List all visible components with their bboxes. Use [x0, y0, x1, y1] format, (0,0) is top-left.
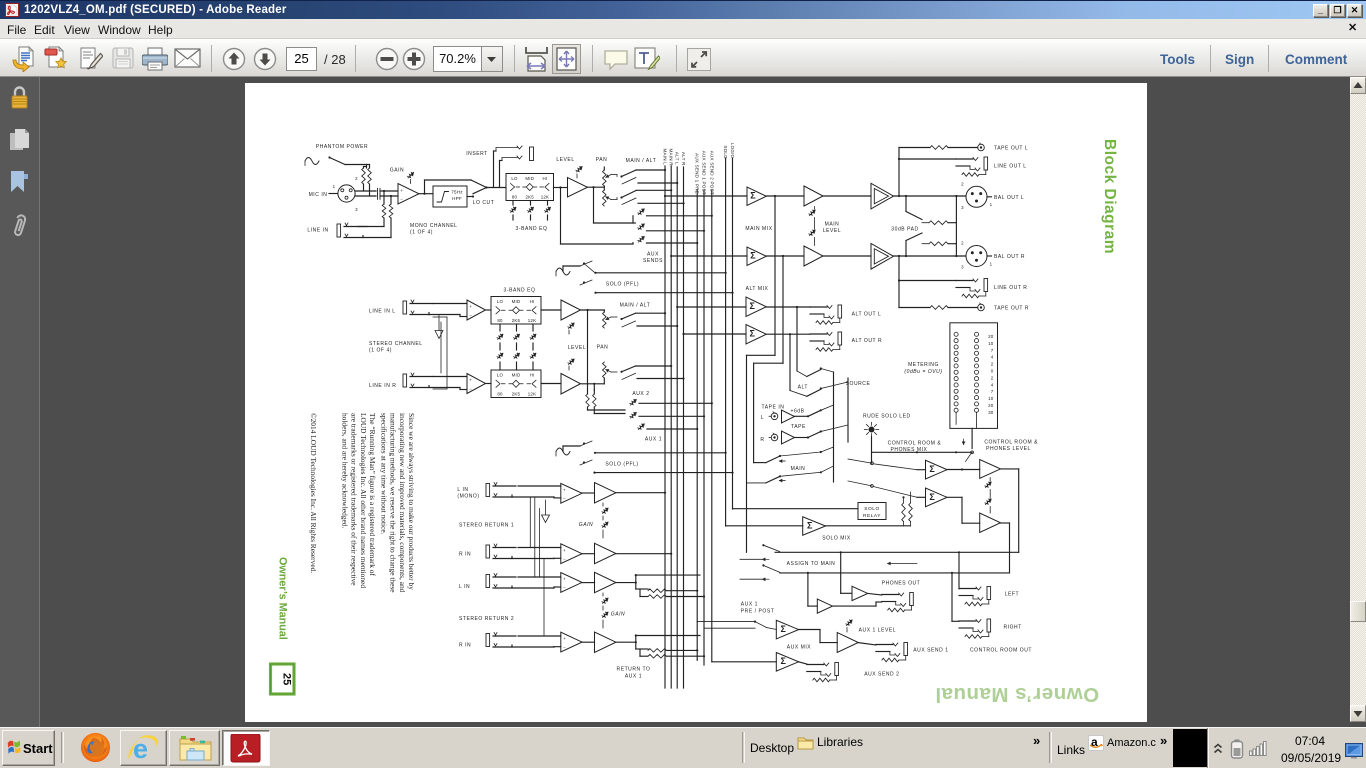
XLR BAL OUT R [966, 246, 987, 267]
pad switch R [905, 255, 907, 257]
aux1 master select switch [696, 659, 698, 661]
svg-text:HI: HI [530, 299, 535, 304]
svg-text:Owner’s Manual: Owner’s Manual [935, 683, 1099, 706]
svg-text:−: − [563, 645, 566, 650]
insert jack sleeve [530, 147, 534, 161]
meter LED column right [974, 332, 978, 336]
svg-text:GAIN: GAIN [390, 168, 404, 174]
EQ HI pot [547, 201, 549, 206]
svg-text:−: − [563, 556, 566, 561]
source select switch MAIN L [754, 462, 766, 464]
XLR BAL OUT L [966, 186, 987, 207]
jack AUX SEND 2 [807, 664, 824, 666]
main mix downfeed corner R [754, 362, 783, 364]
jack LINE OUT L [956, 158, 973, 160]
source arrow main R [779, 480, 785, 482]
node tape/line split R [898, 255, 900, 257]
return1 gain pot [602, 503, 604, 506]
tape in amp R [782, 431, 795, 444]
solo source symbol (mono) [556, 268, 570, 275]
aux1 level pot [846, 620, 851, 625]
main level pot R [809, 230, 814, 235]
buffer amp R (stereo) [467, 374, 486, 394]
phones amp R [817, 599, 832, 613]
wire to AUX SEND 1 PRE (stereo) [647, 428, 697, 430]
tape in amp L [782, 410, 795, 423]
jack AUX SEND 1 [876, 644, 893, 646]
CR power amp L [980, 460, 1001, 479]
output driver L [871, 183, 894, 209]
tape out R resistor [899, 307, 930, 309]
CR pot rail [989, 478, 991, 482]
assign arrows [762, 558, 769, 560]
svg-text:2: 2 [961, 241, 964, 246]
aux2 pot (mono) [638, 236, 643, 241]
svg-text:Σ: Σ [750, 301, 756, 311]
line-in resistor R4 [363, 237, 391, 239]
jack CONTROL ROOM OUT LEFT [959, 588, 976, 590]
svg-text:LO CUT: LO CUT [473, 200, 495, 206]
pan pot network L (stereo) [603, 310, 605, 312]
svg-text:4: 4 [991, 355, 994, 360]
svg-text:2K5: 2K5 [512, 318, 521, 323]
wire sum L to main level [766, 195, 804, 197]
pad link wire [955, 195, 957, 197]
svg-text:specifications at any time wit: specifications at any time without notic… [379, 413, 388, 535]
svg-text:(MONO): (MONO) [457, 494, 479, 500]
node tape/line split L [898, 195, 900, 197]
page number box 25 [271, 664, 295, 694]
switch MAIN/ALT R (stereo) [620, 371, 622, 373]
svg-text:L: L [761, 415, 764, 421]
sum amp CR L [926, 460, 948, 479]
gain amp return1 L [595, 483, 616, 503]
return to aux resistor R7 [636, 648, 648, 650]
wire [433, 376, 467, 378]
LED wire [871, 437, 873, 464]
svg-text:Owner’s Manual: Owner’s Manual [277, 557, 289, 640]
coupling capacitor C2 [377, 194, 379, 199]
wire driver L out [894, 195, 966, 197]
phones amp L [852, 586, 868, 600]
svg-text:2: 2 [961, 182, 964, 187]
svg-text:MID: MID [512, 299, 521, 304]
wire return2 R out [616, 641, 636, 643]
aux1 pre pot (stereo) [638, 424, 643, 429]
metering box [950, 323, 998, 429]
svg-text:METERING: METERING [908, 362, 939, 368]
return to aux resistor R8 [640, 655, 648, 657]
svg-text:RUDE SOLO LED: RUDE SOLO LED [863, 414, 911, 420]
assign to main wire L [775, 551, 1019, 553]
output driver R [871, 244, 894, 270]
svg-text:GAIN: GAIN [579, 522, 593, 528]
switch ALT R throw (mono) [622, 198, 636, 205]
wire to sum CR L [873, 464, 917, 470]
jack STEREO RETURN 1 R [486, 545, 490, 558]
wire level L out [581, 309, 605, 311]
svg-text:SOLO: SOLO [723, 145, 728, 159]
bus AUX SEND 1 POST [703, 190, 705, 665]
source collect rail 1 [833, 372, 835, 482]
svg-text:−: − [563, 585, 566, 590]
svg-text:+6dB: +6dB [790, 409, 804, 415]
sum amp CR R [926, 488, 948, 507]
rail resistor L [586, 394, 589, 407]
wire aux to AUX SEND 1 POST [647, 230, 705, 232]
rail resistor R [593, 394, 596, 407]
wire sum CR L to amp [947, 469, 980, 471]
jack CONTROL ROOM OUT RIGHT [959, 620, 976, 622]
svg-text:manufacturing methods, we rese: manufacturing methods, we reserve the ri… [389, 413, 398, 593]
svg-text:Σ: Σ [780, 656, 786, 666]
svg-text:SENDS: SENDS [643, 258, 663, 264]
svg-text:SOLO: SOLO [864, 506, 880, 512]
aux2 pot (stereo) [630, 399, 635, 404]
svg-text:L IN: L IN [457, 487, 468, 493]
source select switch MAIN R [747, 482, 766, 484]
jack STEREO RETURN 2 R [486, 634, 490, 647]
source arrow main L [779, 460, 785, 462]
CR mix select pivot L [871, 462, 874, 465]
solo logic switch (stereo) [580, 460, 592, 465]
CR level switch [971, 428, 973, 448]
svg-text:+: + [563, 548, 566, 553]
jack STEREO RETURN 2 L [486, 575, 490, 588]
phones wires to jack [868, 593, 882, 595]
svg-text:+: + [563, 487, 566, 492]
CR mix select pivot R [871, 485, 874, 488]
svg-text:e: e [133, 734, 148, 764]
svg-text:MIC IN: MIC IN [309, 192, 328, 198]
wire alt L out [766, 306, 810, 308]
svg-text:AUX 2: AUX 2 [632, 391, 649, 397]
svg-text:−: − [469, 313, 472, 318]
sum amp ALT L [746, 297, 766, 317]
pad switch L [905, 195, 907, 197]
source select switch TAPE R [795, 437, 809, 439]
HPF filter block 75Hz [433, 186, 467, 207]
phantom switch S1 [328, 156, 330, 158]
svg-text:AUX SEND 1: AUX SEND 1 [913, 648, 948, 654]
svg-text:20: 20 [988, 334, 994, 339]
gain amp return2 R [595, 632, 616, 652]
svg-text:TAPE: TAPE [791, 424, 806, 430]
svg-text:7: 7 [991, 389, 994, 394]
node main R downfeed [782, 255, 784, 257]
svg-text:AUX SEND 1 PRE: AUX SEND 1 PRE [695, 153, 700, 194]
tape out L resistor [899, 147, 930, 149]
svg-text:SOLO (PFL): SOLO (PFL) [605, 462, 638, 468]
sum amp AUX 1 [776, 620, 798, 639]
svg-text:LINE OUT L: LINE OUT L [994, 164, 1027, 170]
svg-text:25: 25 [281, 673, 293, 685]
svg-text:AUX 1 LEVEL: AUX 1 LEVEL [859, 628, 896, 634]
wire to AUX SEND 2 POST (stereo) [639, 402, 712, 404]
svg-text:©2014 LOUD Technologies Inc. A: ©2014 LOUD Technologies Inc. All Rights … [309, 413, 318, 573]
svg-text:10: 10 [988, 396, 994, 401]
return to aux resistor R6 [640, 596, 648, 598]
svg-text:0: 0 [991, 369, 994, 374]
svg-text:are trademarks or registered t: are trademarks or registered trademarks … [350, 413, 359, 586]
svg-text:20: 20 [988, 403, 994, 408]
RCA jack TAPE IN R [771, 434, 778, 441]
return to aux resistor R5 [636, 588, 648, 590]
phantom resistor R2 [368, 168, 372, 184]
svg-text:holders, and are hereby acknow: holders, and are hereby acknowledged. [340, 413, 349, 528]
svg-text:SOLO MIX: SOLO MIX [822, 536, 851, 542]
aux1 level amp [837, 633, 858, 653]
svg-text:LOGIC: LOGIC [730, 143, 735, 159]
pan wiper R (stereo) [606, 370, 611, 373]
svg-text:MAIN L: MAIN L [663, 148, 668, 165]
wire sum R to main level [766, 255, 804, 257]
svg-text:1: 1 [990, 262, 993, 267]
svg-text:ALT: ALT [798, 385, 808, 391]
svg-text:+: + [469, 304, 472, 309]
return jack normalling wires [529, 497, 531, 548]
svg-text:TAPE OUT R: TAPE OUT R [994, 306, 1029, 312]
svg-text:LO: LO [497, 372, 504, 377]
svg-text:PRE / POST: PRE / POST [741, 609, 775, 615]
coupling capacitor C1 [377, 188, 379, 193]
svg-text:incorporating new and improved: incorporating new and improved materials… [398, 413, 407, 593]
svg-text:CONTROL ROOM &: CONTROL ROOM & [984, 440, 1038, 446]
jack LINE IN (mono) [337, 224, 341, 237]
wire LOGIC to solo relay [733, 508, 859, 510]
switch ALT L throw (stereo) [622, 321, 636, 327]
solo feed resistor 2 [910, 522, 912, 526]
wire level out [588, 186, 605, 188]
solo feed resistor 1 [903, 522, 905, 526]
svg-text:BAL OUT R: BAL OUT R [994, 254, 1025, 260]
svg-text:MID: MID [512, 372, 521, 377]
bus AUX SEND 2 POST [711, 190, 713, 662]
wire to aux send 1 jack [858, 643, 876, 645]
node main L downfeed [774, 195, 776, 197]
bus MAIN L [664, 166, 666, 688]
wire sum CR R to amp [947, 496, 962, 498]
pan wiper R [606, 197, 611, 200]
svg-text:BAL OUT L: BAL OUT L [994, 195, 1024, 201]
op-amp U1 mic preamp [398, 184, 419, 205]
EQ pots (stereo MID) [516, 324, 518, 331]
svg-text:STEREO CHANNEL: STEREO CHANNEL [369, 341, 423, 347]
svg-text:LEVEL: LEVEL [568, 345, 586, 351]
sum amp ALT R [746, 325, 766, 345]
bus SOLO [725, 158, 727, 526]
level amp L (stereo) [561, 300, 581, 320]
buffer amp L (stereo) [467, 300, 486, 320]
jack LINE IN R [403, 374, 407, 387]
svg-text:75Hz: 75Hz [451, 190, 463, 195]
svg-text:ALT OUT R: ALT OUT R [852, 338, 883, 344]
main level pot rail [814, 207, 816, 210]
svg-text:R IN: R IN [459, 643, 471, 649]
switch ALT L throw (mono) [622, 178, 636, 185]
bus AUX SEND 1 PRE [696, 190, 698, 660]
assign switch L [747, 545, 764, 552]
sum amp MAIN R [747, 247, 766, 266]
bus ALT R [683, 167, 685, 688]
source select switch ALT L [797, 371, 807, 377]
jack INSERT (ring) [502, 158, 518, 161]
CR power amp R [980, 513, 1001, 533]
svg-text:ALT MIX: ALT MIX [746, 286, 769, 292]
svg-text:AUX SEND 2 POST: AUX SEND 2 POST [709, 151, 714, 195]
source select switch ALT R [790, 391, 807, 397]
level amp (mono) [568, 178, 588, 198]
svg-text:PAN: PAN [597, 345, 609, 351]
jack PHONES OUT [882, 594, 899, 596]
svg-text:2K5: 2K5 [526, 194, 535, 199]
main level pot L [809, 210, 814, 215]
svg-text:LEVEL: LEVEL [556, 157, 574, 163]
source select switch TAPE L [795, 415, 809, 417]
svg-text:HI: HI [530, 372, 535, 377]
wire line out R [898, 279, 900, 281]
svg-text:30dB PAD: 30dB PAD [891, 227, 918, 233]
wire to EQ [487, 187, 507, 189]
svg-text:AUX SEND 1 POST: AUX SEND 1 POST [702, 151, 707, 195]
CR amp R out [1001, 522, 1010, 524]
EQ LO pot [512, 201, 514, 206]
svg-text:MAIN: MAIN [791, 466, 806, 472]
svg-text:PHONES OUT: PHONES OUT [882, 581, 921, 587]
CR level pot R [985, 499, 990, 504]
wire MAIN R bus to sum [670, 255, 672, 257]
RCA jack TAPE OUT L [978, 144, 985, 151]
svg-text:2K5: 2K5 [512, 391, 521, 396]
switch MAIN/ALT L (stereo) [620, 318, 622, 320]
wire main R to output driver [823, 255, 871, 257]
ground symbol return1 [545, 500, 547, 515]
solo source symbol (stereo) [556, 448, 570, 455]
sum amp SOLO MIX [803, 517, 826, 535]
svg-text:ALT OUT L: ALT OUT L [852, 312, 882, 318]
svg-text:3: 3 [961, 265, 964, 270]
svg-text:LEVEL: LEVEL [823, 228, 841, 234]
svg-text:GAIN: GAIN [611, 612, 625, 618]
RCA jack TAPE OUT R [978, 304, 985, 311]
wire ALT L bus to sum [676, 306, 678, 308]
wire main L to output driver [823, 195, 871, 197]
svg-text:Block Diagram: Block Diagram [1101, 139, 1118, 254]
CR out feed L [958, 552, 960, 589]
solo switch PFL (stereo) [580, 441, 592, 446]
svg-text:L IN: L IN [459, 584, 470, 590]
svg-text:R IN: R IN [459, 552, 471, 558]
svg-text:30: 30 [988, 410, 994, 415]
svg-text:AUX 1: AUX 1 [741, 602, 758, 608]
wire line out L [898, 158, 900, 160]
svg-text:80: 80 [512, 194, 518, 199]
gain amp return1 R [595, 543, 616, 563]
aux feed wires (mono) [594, 222, 634, 224]
gain pot VR1 [407, 172, 412, 177]
CR amp L out [1001, 468, 1019, 470]
XLR connector MIC IN [338, 185, 355, 202]
bus LOGIC [732, 158, 734, 509]
svg-text:2: 2 [991, 375, 994, 380]
svg-text:10: 10 [988, 341, 994, 346]
wire AUX2 bus to sum [712, 661, 777, 663]
aux1 post pot (stereo) [630, 412, 635, 417]
svg-text:ALT L: ALT L [675, 152, 680, 165]
svg-text:(0dBu = OVU): (0dBu = OVU) [904, 369, 942, 375]
wire aux to AUX SEND 2 POST [647, 215, 712, 217]
rude solo LED [869, 427, 875, 433]
wire alt R out [766, 333, 810, 335]
assign to main wire R [780, 572, 1010, 574]
switch MAIN/ALT R (mono) [620, 196, 622, 198]
bus ALT L [676, 167, 678, 688]
line-in resistor R3 [383, 218, 385, 227]
phantom resistor R1 [362, 168, 366, 184]
3-band EQ block (stereo L) [491, 297, 541, 325]
insert send wire [493, 151, 495, 188]
svg-text:4: 4 [991, 382, 994, 387]
sum amp MAIN L [747, 187, 766, 206]
svg-text:+: + [400, 188, 403, 193]
svg-text:LEFT: LEFT [1005, 592, 1019, 598]
svg-text:(1 OF 4): (1 OF 4) [410, 230, 433, 236]
aux1 pre pot (mono) [638, 209, 643, 214]
wire [380, 190, 398, 192]
svg-text:TAPE OUT L: TAPE OUT L [994, 146, 1028, 152]
jack STEREO RETURN 1 L [486, 484, 490, 497]
low-cut switch [467, 196, 473, 198]
node channel post-EQ [559, 186, 561, 188]
wire [355, 190, 376, 192]
pad resistor R [922, 243, 929, 245]
CR level pot L [985, 482, 990, 487]
svg-text:STEREO RETURN 1: STEREO RETURN 1 [459, 523, 514, 529]
svg-text:R: R [760, 437, 764, 443]
return2 gain pot [602, 593, 604, 596]
solo mix out wire [826, 525, 911, 527]
wire to AUX SEND 1 POST (stereo) [639, 415, 704, 417]
jack LINE IN L [403, 301, 407, 314]
svg-text:PHANTOM POWER: PHANTOM POWER [316, 144, 368, 150]
wire op-amp output [419, 193, 433, 195]
jack ALT OUT L [810, 306, 827, 308]
svg-text:12K: 12K [541, 194, 549, 199]
wire EQ to level R [541, 383, 561, 385]
switch MAIN/ALT L (mono) [620, 175, 622, 177]
svg-text:ALT R: ALT R [681, 152, 686, 166]
svg-text:HI: HI [543, 176, 548, 181]
svg-text:LINE IN R: LINE IN R [369, 383, 396, 389]
svg-text:ASSIGN TO MAIN: ASSIGN TO MAIN [787, 561, 836, 567]
aux1 to level wire [799, 629, 820, 631]
level amp R (stereo) [561, 374, 581, 395]
svg-text:AUX SEND 2: AUX SEND 2 [864, 671, 899, 677]
node alt R downfeed [789, 333, 791, 335]
source collect rail 2 [847, 378, 849, 442]
svg-text:LINE OUT R: LINE OUT R [994, 285, 1027, 291]
solo logic switch (mono) [580, 280, 592, 285]
svg-text:PAN: PAN [596, 157, 608, 163]
node alt L downfeed [796, 306, 798, 308]
svg-text:INSERT: INSERT [466, 151, 488, 157]
svg-text:SOLO (PFL): SOLO (PFL) [606, 282, 639, 288]
wire ALT R bus to sum [682, 333, 684, 335]
wire SOLO bus to solo mix [726, 525, 803, 527]
assign stub R [740, 578, 762, 580]
svg-text:AUX 1: AUX 1 [625, 674, 642, 680]
wire [486, 309, 492, 311]
